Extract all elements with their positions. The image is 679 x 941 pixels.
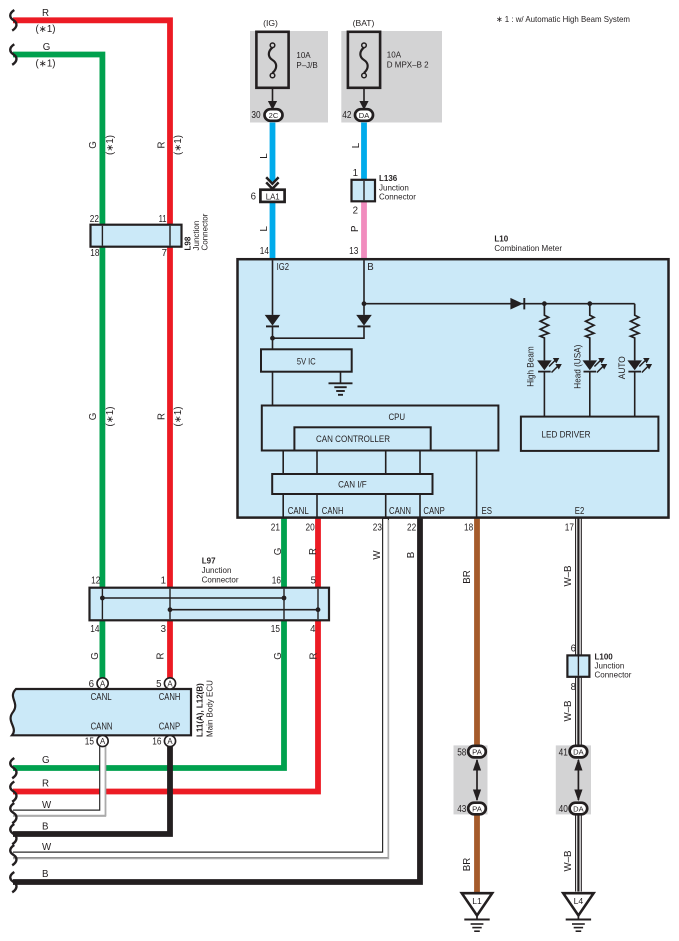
- svg-text:41: 41: [559, 747, 568, 758]
- connector oval DA pin 41: [570, 746, 588, 758]
- wire through L136: [363, 181, 365, 200]
- arrow from fuse IG to connector 2C: [272, 88, 274, 102]
- svg-text:(∗1): (∗1): [36, 58, 56, 69]
- svg-text:AUTO: AUTO: [617, 356, 627, 379]
- svg-text:1: 1: [353, 168, 358, 179]
- squiggle break symbol wire G bottom: [10, 758, 16, 778]
- svg-text:PA: PA: [472, 748, 482, 757]
- ground L4: [563, 893, 593, 915]
- svg-text:R: R: [309, 653, 320, 660]
- wire through L100: [577, 657, 579, 676]
- svg-text:13: 13: [349, 246, 358, 257]
- svg-text:(∗1): (∗1): [105, 135, 116, 155]
- svg-text:30: 30: [251, 110, 261, 121]
- ground L1: [462, 893, 492, 915]
- svg-text:P–J/B: P–J/B: [296, 61, 317, 70]
- svg-text:G: G: [273, 548, 284, 556]
- svg-text:CAN CONTROLLER: CAN CONTROLLER: [316, 434, 390, 444]
- svg-text:DA: DA: [359, 111, 370, 120]
- wire W-B from L100 pin 8 to DA connector 41: [576, 676, 582, 747]
- svg-text:R: R: [157, 413, 168, 420]
- fuse element symbol IG: [269, 48, 276, 74]
- diode D3 on LED feed line: [510, 298, 523, 310]
- svg-text:IG2: IG2: [277, 262, 289, 273]
- svg-text:Junction: Junction: [595, 662, 625, 671]
- svg-text:R: R: [157, 142, 168, 149]
- connector circle A pin 6 (CANL): [97, 678, 108, 689]
- connector oval 2C pin 30: [265, 109, 283, 121]
- svg-text:G: G: [42, 755, 50, 766]
- wire through L97 green 16/15: [283, 589, 285, 619]
- connector circle A pin 16 (CANP): [164, 735, 175, 746]
- svg-text:A: A: [167, 679, 173, 688]
- LED 3 AUTO: [627, 358, 652, 417]
- fuse 10A P-J/B rectangle: [256, 32, 288, 88]
- wire B internal down to diode: [363, 261, 365, 315]
- wire ES from CPU to meter pin 18: [476, 451, 478, 518]
- junction connector L98 box: [91, 225, 182, 247]
- svg-text:R: R: [156, 653, 167, 660]
- svg-text:21: 21: [271, 522, 280, 533]
- CAN I/F box: [272, 474, 432, 494]
- connector oval DA pin 42: [355, 109, 373, 121]
- wire G (*1) top horizontal+vertical, green: [13, 55, 102, 226]
- junction dot branch High Beam: [542, 301, 547, 306]
- svg-text:CANH: CANH: [322, 506, 344, 517]
- svg-text:CANH: CANH: [159, 692, 181, 703]
- wire through L98 at pin 22/18: [101, 226, 103, 246]
- wire red below L97 to ECU pin 5A: [167, 620, 173, 679]
- connector oval PA pin 58: [468, 746, 486, 758]
- svg-text:B: B: [367, 262, 373, 273]
- svg-text:20: 20: [306, 522, 316, 533]
- svg-text:R: R: [308, 548, 319, 555]
- junction dot at D1 output: [270, 336, 275, 341]
- 5V IC box: [261, 349, 352, 371]
- resistor R1 (High Beam branch): [540, 304, 548, 361]
- svg-text:L: L: [259, 225, 270, 231]
- wire green G below L98 to L97: [100, 247, 106, 589]
- svg-text:L100: L100: [595, 653, 614, 662]
- CAN CONTROLLER box: [294, 427, 430, 450]
- svg-text:Junction: Junction: [202, 566, 232, 575]
- squiggle break symbol wire B2: [10, 872, 16, 892]
- wire through L97 green 12/14: [101, 589, 103, 619]
- svg-text:43: 43: [457, 804, 466, 815]
- svg-text:L: L: [351, 142, 362, 148]
- svg-text:14: 14: [260, 246, 270, 257]
- wire P pink from L136 pin 2 to meter pin 13: [361, 201, 367, 259]
- svg-text:DA: DA: [573, 804, 584, 813]
- svg-text:BR: BR: [462, 570, 473, 583]
- main body ECU box L11(A) L12(B): [11, 689, 191, 735]
- wire from D1 to 5V IC with junction: [272, 326, 274, 350]
- svg-text:High Beam: High Beam: [526, 346, 536, 387]
- wire IG2 internal down to diode: [272, 261, 274, 315]
- svg-text:B: B: [406, 552, 417, 558]
- svg-text:(BAT): (BAT): [353, 18, 375, 28]
- svg-text:CANL: CANL: [91, 692, 113, 703]
- junction connector L100 box: [567, 655, 589, 676]
- svg-text:G: G: [43, 42, 51, 53]
- svg-text:6: 6: [571, 643, 576, 654]
- svg-text:CANL: CANL: [288, 506, 310, 517]
- svg-text:∗ 1 : w/ Automatic High Beam S: ∗ 1 : w/ Automatic High Beam System: [496, 14, 630, 24]
- wire green below L97 to ECU pin 6A: [100, 620, 106, 679]
- svg-text:LED DRIVER: LED DRIVER: [542, 429, 591, 439]
- fuse block gray box (IG): [250, 31, 328, 123]
- diode D1 on IG2 line: [265, 315, 281, 326]
- fuse 10A D MPX-B 2 rectangle: [348, 32, 380, 88]
- svg-text:Connector: Connector: [202, 576, 239, 585]
- L97 top bus bar: [102, 597, 284, 599]
- svg-text:CPU: CPU: [388, 412, 405, 422]
- squiggle break symbol wire R top: [10, 10, 16, 31]
- svg-text:A: A: [100, 737, 106, 746]
- svg-text:(∗1): (∗1): [173, 407, 184, 427]
- junction connector L136 box: [352, 180, 376, 202]
- svg-text:7: 7: [162, 248, 167, 259]
- svg-text:Combination Meter: Combination Meter: [494, 244, 562, 253]
- svg-text:4: 4: [310, 624, 316, 635]
- fuse element symbol BAT: [360, 48, 367, 74]
- wire through L97 red 5/4: [317, 589, 319, 619]
- LED 1 High Beam: [537, 358, 562, 417]
- svg-text:23: 23: [373, 522, 382, 533]
- svg-text:22: 22: [90, 214, 99, 225]
- squiggle break symbol wire B1: [10, 824, 16, 844]
- svg-text:Main Body ECU: Main Body ECU: [206, 680, 215, 737]
- wire L blue from LA1 to meter pin 14: [270, 202, 276, 259]
- svg-text:P: P: [350, 226, 361, 232]
- svg-text:10A: 10A: [387, 51, 402, 60]
- connector oval DA pin 40: [570, 803, 588, 815]
- svg-text:W–B: W–B: [563, 566, 574, 587]
- junction dot branch Head (USA): [587, 301, 592, 306]
- svg-text:16: 16: [272, 576, 281, 587]
- svg-text:(∗1): (∗1): [105, 407, 116, 427]
- svg-text:A: A: [100, 679, 106, 688]
- arrow double between DA connectors: [577, 760, 579, 800]
- connector circle A pin 5 (CANH): [164, 678, 175, 689]
- connector circle A pin 15 (CANN): [97, 735, 108, 746]
- svg-text:W–B: W–B: [563, 701, 574, 722]
- svg-text:5V IC: 5V IC: [297, 357, 316, 367]
- wire L blue from IG fuse to chevron: [270, 121, 276, 182]
- svg-text:2C: 2C: [269, 111, 279, 120]
- wire BR brown ES from meter pin 18 to PA connector: [474, 518, 480, 747]
- gray box DA pair: [556, 745, 591, 814]
- svg-text:W: W: [372, 550, 383, 560]
- svg-text:Head (USA): Head (USA): [573, 345, 583, 389]
- svg-text:BR: BR: [462, 858, 473, 871]
- svg-text:L1: L1: [472, 896, 482, 906]
- svg-text:58: 58: [457, 747, 466, 758]
- svg-text:2: 2: [353, 206, 358, 217]
- svg-text:42: 42: [342, 110, 351, 121]
- svg-text:CANP: CANP: [423, 506, 444, 517]
- LED feed line from B junction: [364, 303, 635, 305]
- svg-text:CAN I/F: CAN I/F: [338, 480, 367, 490]
- svg-text:W–B: W–B: [563, 851, 574, 872]
- svg-text:16: 16: [152, 737, 161, 748]
- svg-text:W: W: [42, 800, 52, 811]
- svg-text:G: G: [88, 141, 99, 149]
- wire B black from meter pin 22 down and left to edge: [13, 518, 420, 882]
- wire 5V IC to CPU: [272, 372, 274, 406]
- svg-text:5: 5: [311, 576, 316, 587]
- svg-text:L10: L10: [494, 235, 508, 244]
- svg-text:12: 12: [91, 576, 100, 587]
- svg-text:G: G: [273, 652, 284, 660]
- wires CAN CONTROLLER to CAN I/F: [283, 452, 420, 475]
- wire BR brown from PA connector 43 to ground L1: [474, 813, 480, 893]
- svg-text:Junction: Junction: [379, 184, 409, 193]
- svg-text:(∗1): (∗1): [173, 135, 184, 155]
- svg-text:CANN: CANN: [91, 722, 113, 733]
- CPU box: [262, 406, 499, 451]
- wire W white from meter pin 23 down and left to edge: [13, 518, 386, 855]
- gray box PA pair: [454, 745, 488, 814]
- svg-text:B: B: [42, 869, 48, 880]
- svg-text:1: 1: [161, 576, 166, 587]
- junction dot on B line to LED feed: [362, 301, 367, 306]
- svg-text:(IG): (IG): [263, 18, 278, 28]
- svg-text:CANN: CANN: [389, 506, 411, 517]
- ground symbol under 5V IC: [329, 383, 353, 395]
- connector box LA1 pin 6: [260, 190, 284, 202]
- svg-text:14: 14: [90, 624, 100, 635]
- combination meter L10 box: [238, 259, 669, 517]
- wire W white from ECU pin 15A down and left to edge: [13, 745, 103, 813]
- svg-text:W: W: [42, 842, 52, 853]
- svg-text:L: L: [259, 153, 270, 159]
- svg-text:D MPX–B 2: D MPX–B 2: [387, 61, 429, 70]
- resistor R2 (Head USA branch): [586, 304, 594, 361]
- junction connector L97 box: [90, 588, 330, 621]
- chevron pair above LA1: [266, 177, 278, 183]
- connector oval PA pin 43: [468, 803, 486, 815]
- wire red CANH from meter pin 20 through L97 down and left to edge: [13, 518, 318, 792]
- svg-text:Connector: Connector: [595, 671, 632, 680]
- svg-text:A: A: [167, 737, 173, 746]
- svg-text:18: 18: [464, 522, 473, 533]
- svg-text:18: 18: [90, 248, 99, 259]
- wire green CANL from meter pin 21 through L97 down and left to edge: [13, 518, 284, 768]
- svg-text:11: 11: [159, 214, 167, 225]
- svg-text:R: R: [42, 8, 49, 19]
- svg-text:G: G: [90, 652, 101, 660]
- svg-text:L136: L136: [379, 174, 398, 183]
- svg-text:10A: 10A: [296, 51, 311, 60]
- svg-text:E2: E2: [575, 506, 585, 517]
- resistor R3 (AUTO branch): [631, 304, 639, 361]
- L97 bottom bus bar: [170, 609, 318, 611]
- LED 2 Head (USA): [583, 358, 608, 417]
- svg-text:40: 40: [559, 804, 569, 815]
- svg-text:15: 15: [85, 737, 94, 748]
- ground stub from 5V IC: [340, 372, 342, 384]
- squiggle break symbol wire W2: [10, 845, 16, 865]
- wire red R below L98 to L97: [167, 247, 173, 589]
- diode D2 on B line: [356, 315, 372, 326]
- svg-text:17: 17: [565, 522, 574, 533]
- svg-text:15: 15: [271, 624, 280, 635]
- svg-text:6: 6: [89, 679, 94, 690]
- squiggle break symbol wire G top: [10, 44, 16, 65]
- svg-text:LA1: LA1: [266, 191, 280, 201]
- squiggle break symbol wire W1: [10, 803, 16, 823]
- svg-text:G: G: [88, 413, 99, 421]
- wire from D2 down and left to junction node: [273, 326, 365, 338]
- svg-text:DA: DA: [573, 748, 584, 757]
- svg-text:CANP: CANP: [159, 722, 180, 733]
- svg-text:3: 3: [161, 624, 166, 635]
- svg-text:8: 8: [571, 682, 576, 693]
- svg-text:Connector: Connector: [379, 193, 416, 202]
- wire R (*1) top horizontal+vertical, red: [13, 20, 170, 225]
- svg-text:R: R: [42, 779, 49, 790]
- svg-text:PA: PA: [472, 804, 482, 813]
- svg-text:ES: ES: [482, 506, 493, 517]
- wire through L97 red 1/3: [169, 589, 171, 619]
- LED DRIVER box: [521, 417, 659, 451]
- wire W-B from DA connector 40 to ground L4: [576, 813, 582, 892]
- svg-text:L97: L97: [202, 557, 216, 566]
- svg-text:Connector: Connector: [201, 213, 210, 250]
- svg-text:5: 5: [156, 679, 161, 690]
- fuse block gray box (BAT): [341, 31, 442, 123]
- wires CAN I/F to meter pins: [283, 494, 420, 517]
- svg-text:(∗1): (∗1): [36, 24, 56, 35]
- wire B black from ECU pin 16A down and left to edge: [13, 745, 170, 834]
- svg-text:22: 22: [407, 522, 416, 533]
- wire W-B from meter pin 17 to L100: [576, 518, 582, 656]
- svg-text:L11(A), L12(B): L11(A), L12(B): [196, 683, 205, 737]
- wire L blue from BAT fuse to L136 pin 1: [361, 121, 367, 180]
- squiggle break symbol wire R bottom: [10, 782, 16, 802]
- arrow double between PA connectors: [476, 760, 478, 800]
- svg-text:B: B: [42, 822, 48, 833]
- svg-text:L4: L4: [574, 896, 584, 906]
- arrow from fuse BAT to connector DA: [363, 88, 365, 102]
- wire through L98 at pin 11/7: [169, 226, 171, 246]
- svg-text:6: 6: [251, 192, 256, 203]
